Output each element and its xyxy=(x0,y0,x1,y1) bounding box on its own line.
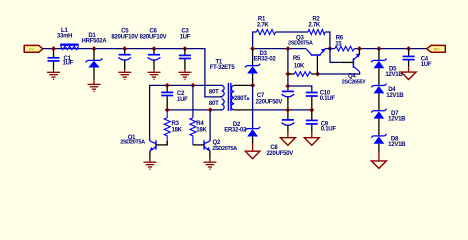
svg-text:1UF: 1UF xyxy=(421,62,432,68)
svg-text:1UF: 1UF xyxy=(177,97,188,103)
node junction at C3 xyxy=(182,46,187,51)
node junction C10 branch xyxy=(285,84,290,89)
wire collector net Q1 (y=85.4) xyxy=(150,85,222,140)
svg-text:1UF: 1UF xyxy=(180,34,191,40)
ground (C9, open triangle) xyxy=(304,138,319,146)
capacitor C3 xyxy=(179,29,191,70)
svg-text:280T: 280T xyxy=(234,96,247,102)
svg-text:0.1UF: 0.1UF xyxy=(320,96,336,102)
svg-text:ER32-02: ER32-02 xyxy=(224,128,247,134)
node junction R5 left xyxy=(285,72,290,77)
svg-text:820UF10V: 820UF10V xyxy=(140,34,167,40)
wire C7 column xyxy=(287,49,289,91)
diode D1 HRF502A xyxy=(82,33,108,79)
capacitor C4 1UF xyxy=(403,49,432,72)
ground (C1) xyxy=(47,70,60,80)
svg-text:1UF: 1UF xyxy=(63,61,74,67)
diode D5 12V1B (zener) xyxy=(371,49,403,86)
wire C10 branch xyxy=(288,86,312,92)
node junction Q2 collector xyxy=(208,107,213,112)
ground (C6) xyxy=(148,70,161,80)
resistor R1 2.7K xyxy=(256,16,275,34)
svg-text:12V1B: 12V1B xyxy=(385,72,403,78)
resistor R5 10K xyxy=(288,56,318,76)
node junction R2/R6/Q4 base xyxy=(327,46,332,51)
svg-text:33mH: 33mH xyxy=(57,34,72,40)
svg-text:220UF50V: 220UF50V xyxy=(266,151,293,157)
wire collector net Q2 (y=109.9) xyxy=(167,109,222,111)
capacitor C6 (polarized) xyxy=(140,29,167,70)
svg-text:15: 15 xyxy=(335,41,342,47)
node junction R4 top xyxy=(190,83,195,88)
svg-text:HRF502A: HRF502A xyxy=(82,39,108,45)
diode D3 ER32-02 xyxy=(245,49,277,86)
resistor R2 2.7K xyxy=(308,16,325,34)
connector J1 (input port, left) xyxy=(24,45,43,52)
svg-text:2.7K: 2.7K xyxy=(257,23,270,29)
svg-text:R1: R1 xyxy=(258,16,266,22)
ground (C5) xyxy=(118,70,131,80)
svg-text:2.7K: 2.7K xyxy=(308,23,321,29)
svg-text:80T: 80T xyxy=(209,101,219,107)
svg-text:ER32-02: ER32-02 xyxy=(254,56,277,62)
wire base/feedback net to Q4 emitter xyxy=(318,72,360,74)
svg-text:0.1UF: 0.1UF xyxy=(321,127,337,133)
diode D4 12V1B (zener) xyxy=(371,84,404,111)
ground (C8, open triangle) xyxy=(280,138,295,146)
node junction D5 xyxy=(376,46,381,51)
node junction C2 top xyxy=(165,83,170,88)
node junction secondary top xyxy=(250,83,255,88)
transformer T1 FT-32ET5 xyxy=(209,60,253,111)
svg-text:C7: C7 xyxy=(257,93,265,99)
svg-text:2SC2655Y: 2SC2655Y xyxy=(342,79,367,85)
transistor Q4 (NPN) xyxy=(330,49,366,86)
capacitor C7 220UF50V (polarized) xyxy=(255,91,294,110)
node junction at C1 xyxy=(51,46,56,51)
node junction C4 xyxy=(406,46,411,51)
connector J2 (output port, right) xyxy=(427,45,446,52)
capacitor C1 xyxy=(48,49,74,70)
resistor R6 15 xyxy=(335,36,355,51)
capacitor C10 0.1UF xyxy=(306,91,336,110)
node junction D3 top xyxy=(250,46,255,51)
ground (C4, open triangle) xyxy=(401,72,416,79)
ground (C3) xyxy=(178,70,191,80)
node junction at C6 xyxy=(152,46,157,51)
node junction R3 top / C2 bottom xyxy=(165,107,170,112)
svg-text:10K: 10K xyxy=(294,63,305,69)
svg-text:12V1B: 12V1B xyxy=(388,117,406,123)
ground (Q2 emitter) xyxy=(203,160,216,170)
node junction C7/C8 xyxy=(285,107,290,112)
capacitor C8 220UF50V (polarized) xyxy=(266,110,294,157)
svg-text:2SD20T5A: 2SD20T5A xyxy=(288,41,313,47)
node junction Q4 collector xyxy=(357,46,362,51)
node junction C10/C9 xyxy=(309,107,314,112)
svg-text:2SD20T5A: 2SD20T5A xyxy=(212,146,237,152)
wire Q3 emitter to node xyxy=(325,48,335,50)
wire output bus xyxy=(354,48,426,50)
svg-text:R2: R2 xyxy=(312,16,320,22)
wire rectified net (y=48.6 mid) xyxy=(253,48,307,50)
wire main V+ bus xyxy=(43,49,222,97)
inductor L1 33mH xyxy=(57,28,79,50)
svg-text:220UF50V: 220UF50V xyxy=(255,100,282,106)
transistor Q1 (NPN, mirrored) xyxy=(120,135,168,160)
ground (D1) xyxy=(88,80,101,92)
svg-text:18K: 18K xyxy=(196,128,207,134)
ground (Q1 emitter) xyxy=(143,160,156,170)
svg-text:R5: R5 xyxy=(293,56,301,62)
svg-text:820UF10V: 820UF10V xyxy=(111,34,138,40)
svg-text:12V1B: 12V1B xyxy=(386,93,404,99)
svg-text:80T: 80T xyxy=(209,89,219,95)
diode D8 12V1B (zener) xyxy=(371,134,406,160)
svg-text:R3: R3 xyxy=(172,121,180,127)
capacitor C2 xyxy=(161,85,188,110)
capacitor C9 0.1UF xyxy=(306,110,337,137)
node junction at C5 xyxy=(122,46,127,51)
svg-text:45V: 45V xyxy=(433,48,440,52)
svg-text:12V1B: 12V1B xyxy=(388,142,406,148)
transistor Q3 (NPN, rotated) xyxy=(288,35,325,74)
svg-text:18K: 18K xyxy=(172,128,183,134)
node junction C7 top xyxy=(285,46,290,51)
svg-text:2SD20T5A: 2SD20T5A xyxy=(120,140,145,146)
resistor R3 18K xyxy=(164,110,182,145)
ground (D2, open triangle) xyxy=(245,151,260,159)
node junction Q3 base xyxy=(315,72,320,77)
capacitor C5 (polarized) xyxy=(111,29,138,70)
diode D7 12V1B (zener) xyxy=(371,109,406,136)
wire D3 anode to D2 xyxy=(252,85,254,128)
svg-text:R4: R4 xyxy=(196,121,204,127)
resistor R4 18K xyxy=(190,85,208,144)
svg-text:Q2: Q2 xyxy=(213,140,221,146)
svg-text:FT-32ET5: FT-32ET5 xyxy=(210,65,236,71)
wire secondary bottom to capacitors xyxy=(253,109,312,111)
diode D2 ER32-02 xyxy=(224,122,260,150)
ground (zener chain, open triangle) xyxy=(371,161,386,169)
node junction at D1 xyxy=(92,46,97,51)
svg-text:6V: 6V xyxy=(29,48,34,52)
wire R1R2 top loop xyxy=(253,32,257,49)
transistor Q2 (NPN) xyxy=(193,110,237,160)
